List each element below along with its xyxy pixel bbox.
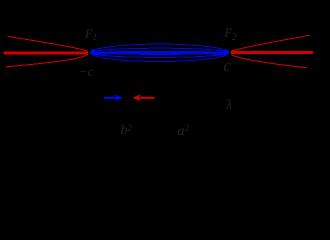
degenerate hyperbola right ray — [231, 51, 313, 54]
ellipse E4 — [90, 51, 229, 54]
label a^2 — [178, 125, 190, 139]
focus F1 blob — [90, 49, 95, 55]
label lambda — [226, 99, 232, 113]
label b^2 — [121, 124, 133, 138]
label c — [224, 57, 232, 74]
hyperbola upper-left arm — [8, 36, 89, 51]
hyperbola upper-right arm — [231, 35, 310, 51]
degenerate hyperbola left ray — [4, 51, 89, 54]
label -c — [79, 65, 94, 79]
red arrow (lambda decreasing toward b^2) — [133, 94, 155, 101]
hyperbola lower-left arm — [6, 55, 88, 67]
degenerate ellipse segment F1F2 — [91, 51, 228, 54]
label F1 — [85, 28, 97, 41]
ellipse E2 — [90, 48, 228, 57]
hyperbola lower-right arm — [231, 55, 307, 68]
ellipse E1 (outer blue) — [91, 44, 229, 61]
blue arrow (lambda increasing toward b^2) — [104, 94, 123, 101]
focus F2 blob — [224, 49, 229, 55]
label F2 — [225, 27, 237, 40]
